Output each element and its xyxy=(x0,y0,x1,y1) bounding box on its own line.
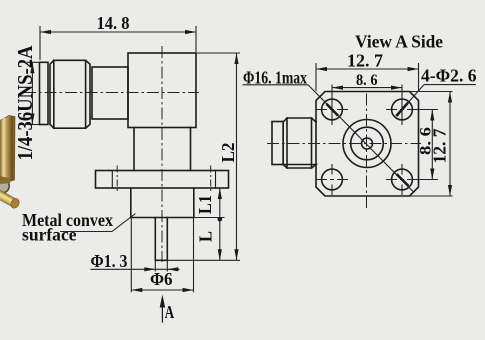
mounting hole bottom-left xyxy=(322,169,343,190)
coupling nut chamfer line left xyxy=(53,60,55,128)
dimension 1/4-36UNS-2A xyxy=(27,62,39,124)
port nut side view xyxy=(283,118,316,168)
dimension L1 xyxy=(194,188,225,260)
coupling nut chamfer line right xyxy=(85,60,87,128)
mounting flange xyxy=(96,171,229,189)
leader for metal convex surface xyxy=(60,214,136,232)
dimension 14.8 xyxy=(40,26,196,60)
flange hole bore line left xyxy=(111,171,113,189)
centerlines right view xyxy=(267,94,421,211)
dimension 8.6 top xyxy=(332,85,402,126)
hole crosshair ticks xyxy=(316,110,418,196)
interface outer circle xyxy=(343,120,391,168)
mounting hole top-left xyxy=(322,99,343,120)
horizontal centerline xyxy=(24,92,199,94)
svg-text:12. 7: 12. 7 xyxy=(430,129,450,164)
svg-text:14. 8: 14. 8 xyxy=(97,13,130,33)
port washer side view xyxy=(272,122,283,165)
dimension 12.7 top xyxy=(316,63,419,91)
svg-text:12. 7: 12. 7 xyxy=(347,51,383,71)
svg-text:4-Φ2. 6: 4-Φ2. 6 xyxy=(421,65,477,85)
photo fragment: gold connector body xyxy=(0,116,15,185)
svg-text:8. 6: 8. 6 xyxy=(356,72,378,89)
flange hole centerline left xyxy=(116,166,118,194)
svg-text:L2: L2 xyxy=(218,143,238,163)
vertical centerline xyxy=(161,46,163,262)
svg-text:surface: surface xyxy=(22,224,77,244)
flange hole centerline right xyxy=(210,166,212,194)
svg-text:View A Side: View A Side xyxy=(355,31,443,51)
vertical centerline xyxy=(366,94,368,211)
mounting hole bottom-right xyxy=(392,169,413,190)
coupling nut outline xyxy=(50,60,90,128)
interface middle circle xyxy=(351,127,384,160)
phi6 convex cylinder xyxy=(131,188,194,218)
coupling washer front face xyxy=(40,62,49,124)
center contact pin xyxy=(155,218,167,261)
leader 4-phi2.6 xyxy=(402,85,424,110)
dimension phi 6 xyxy=(131,218,193,292)
svg-text:Φ6: Φ6 xyxy=(150,269,173,289)
svg-text:L1: L1 xyxy=(195,195,215,214)
svg-text:Φ1. 3: Φ1. 3 xyxy=(91,251,128,271)
vertical tube below body xyxy=(134,128,191,171)
mounting hole top-right xyxy=(392,99,413,120)
svg-text:L: L xyxy=(196,231,216,242)
interface pin circle xyxy=(362,138,373,149)
svg-text:A: A xyxy=(165,302,175,322)
centerlines left view xyxy=(24,46,211,262)
main right-angle body block xyxy=(128,53,196,128)
bold slash in top-right hole xyxy=(396,103,408,116)
dimension phi 1.3 xyxy=(91,260,180,271)
bold slash in top-left hole xyxy=(327,104,339,116)
diagonal construction line through holes xyxy=(308,85,414,193)
bold slash in bottom-right hole xyxy=(397,174,409,186)
photo fragment: dark opening at body base xyxy=(0,179,9,192)
view arrow A xyxy=(161,306,163,323)
square flange outline xyxy=(316,92,419,197)
barrel section xyxy=(92,67,128,119)
svg-text:1/4-36UNS-2A: 1/4-36UNS-2A xyxy=(13,45,37,160)
flange hole bore line right xyxy=(215,171,217,189)
horizontal centerline xyxy=(267,143,421,145)
dimension L2 xyxy=(168,53,241,260)
dimension 12.7 right xyxy=(410,92,453,197)
dimension 8.6 right xyxy=(413,110,438,180)
photo fragment: gold rod xyxy=(0,189,21,210)
